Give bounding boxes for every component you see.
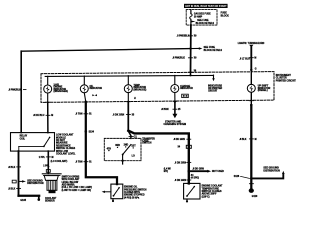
label .8 BLK lower xyxy=(8,188,21,190)
svg-text:(126°C): (126°C) xyxy=(202,196,210,198)
arrow left from oil switch xyxy=(102,191,111,193)
lamp L4 lower stub xyxy=(173,93,177,102)
module internal text xyxy=(20,135,28,141)
oil pressure switch label xyxy=(124,187,147,200)
label (L4 W/MT) xyxy=(164,167,171,173)
fuse block label xyxy=(221,13,230,18)
label W5 xyxy=(239,139,256,141)
label W2 .8 TAN lower xyxy=(75,161,92,164)
svg-text:(4 SPD): (4 SPD) xyxy=(191,176,199,179)
lamp L2 lower stub xyxy=(84,93,88,102)
svg-text:SEE FUSE: SEE FUSE xyxy=(204,47,216,49)
svg-text:LIGHTS: TURN/HAZARD: LIGHTS: TURN/HAZARD xyxy=(238,42,265,45)
splice label left xyxy=(234,176,250,178)
svg-text:CHARGING SYSTEM: CHARGING SYSTEM xyxy=(164,123,187,126)
lamp L4 stub xyxy=(174,75,176,84)
coolant sensor body xyxy=(42,174,61,193)
label W4 xyxy=(161,109,181,111)
svg-text:INSTRUMENT: INSTRUMENT xyxy=(276,75,292,77)
node S (junction to left feed) xyxy=(189,47,191,49)
wire left feed to left column xyxy=(21,49,190,52)
svg-text:LEVEL BELOW: LEVEL BELOW xyxy=(62,182,79,184)
svg-text:RESISTANCE: RESISTANCE xyxy=(56,144,71,147)
svg-text:(FULL TO LOW = NO LAMP): (FULL TO LOW = NO LAMP) xyxy=(62,186,93,189)
svg-text:COOLANT: COOLANT xyxy=(45,197,57,200)
switch inside transfer case xyxy=(107,145,137,164)
svg-text:.8 DK GRN: .8 DK GRN xyxy=(192,168,204,170)
svg-text:10 AMP: 10 AMP xyxy=(194,16,203,19)
svg-text:ON PRINTED: ON PRINTED xyxy=(208,88,223,90)
svg-text:1 PPL: 1 PPL xyxy=(43,165,50,167)
svg-text:ABOVE 258°F: ABOVE 258°F xyxy=(202,193,218,196)
svg-text:.8 BRN: .8 BRN xyxy=(161,109,169,111)
lamp L4 charge indicator xyxy=(171,85,179,93)
svg-text:BLOCK DETAILS: BLOCK DETAILS xyxy=(204,49,223,52)
svg-text:PRINTED CIRCUIT: PRINTED CIRCUIT xyxy=(276,80,297,82)
bus wire inside cluster xyxy=(45,75,213,76)
svg-text:M: M xyxy=(52,157,54,159)
label .8 PNK/BLK left wire xyxy=(8,90,26,92)
lamp L1 stub xyxy=(47,76,49,85)
ground G110 xyxy=(249,188,258,198)
svg-text:WITH LOW: WITH LOW xyxy=(56,151,69,153)
svg-text:3RD: 3RD xyxy=(115,145,120,147)
svg-text:HOT IN RUN, BULB TEST OR START: HOT IN RUN, BULB TEST OR START xyxy=(185,5,227,8)
wire fuse to cluster (PNK/BLK) xyxy=(190,25,192,72)
svg-text:.8 DK GRN: .8 DK GRN xyxy=(174,162,186,164)
oil pressure switch box xyxy=(111,184,123,202)
svg-text:.8 DK BLU: .8 DK BLU xyxy=(33,115,45,117)
wire W2 lamp2 down (TAN) xyxy=(86,102,117,184)
lamp L3 lower stub xyxy=(126,93,136,102)
label W3 xyxy=(113,114,135,116)
svg-text:BLOCK: BLOCK xyxy=(221,15,230,17)
lamp L3 stub xyxy=(127,76,129,85)
svg-text:TEMPERATURE: TEMPERATURE xyxy=(202,187,220,190)
sensor note text xyxy=(62,176,93,192)
svg-text:S128: S128 xyxy=(234,176,240,178)
svg-text:31: 31 xyxy=(89,114,92,116)
svg-text:LOW COOLANT: LOW COOLANT xyxy=(56,134,74,137)
node bus/fuse wire junction xyxy=(189,74,191,76)
svg-text:SEE FUSE: SEE FUSE xyxy=(197,20,209,22)
lamp L5 lower stub xyxy=(249,92,253,105)
svg-text:(W/GAUGES): (W/GAUGES) xyxy=(54,90,69,93)
bus end down arrow xyxy=(212,75,215,81)
label .8 PNK/BLK below junction xyxy=(172,58,197,60)
svg-text:.8 PNK/BLK: .8 PNK/BLK xyxy=(177,36,190,38)
svg-text:.8 TAN: .8 TAN xyxy=(75,113,82,116)
note starter and charging system xyxy=(164,121,187,127)
svg-text:4TH: 4TH xyxy=(107,148,112,151)
svg-text:.8 BLK: .8 BLK xyxy=(8,188,16,190)
node branch not used xyxy=(188,168,225,173)
svg-text:G105: G105 xyxy=(20,200,26,202)
svg-text:39: 39 xyxy=(194,58,197,60)
label 34 4-spd xyxy=(191,174,199,179)
svg-text:FUSE: FUSE xyxy=(221,13,228,15)
svg-text:1 PPL: 1 PPL xyxy=(39,157,46,159)
wire fuse entry to bus xyxy=(190,72,192,75)
lamp L1 lower stub xyxy=(46,93,50,102)
svg-text:S134: S134 xyxy=(89,131,95,134)
svg-text:39: 39 xyxy=(194,36,197,38)
instrument cluster dashed box xyxy=(41,72,274,103)
note indicators printed circuit xyxy=(208,84,223,92)
svg-text:SWITCH: SWITCH xyxy=(142,143,151,145)
wire G into cluster xyxy=(250,70,252,84)
svg-text:M: M xyxy=(51,115,53,117)
arrow see fuse block details xyxy=(191,47,223,52)
bowtie mark under L2 label xyxy=(92,94,97,96)
svg-text:DISTRIBUTION: DISTRIBUTION xyxy=(263,170,280,172)
svg-text:SWITCH CLOSES: SWITCH CLOSES xyxy=(56,148,76,150)
svg-text:NOT USED: NOT USED xyxy=(212,171,224,173)
inline connector 34 xyxy=(178,145,192,148)
wire W4 lamp4 to starter/charging xyxy=(172,100,177,118)
svg-text:INDICATOR: INDICATOR xyxy=(90,87,103,90)
splice S208 and see ground distribution xyxy=(12,180,44,185)
ground wire from module xyxy=(18,151,20,196)
labels on sensor wire xyxy=(39,157,68,173)
svg-text:CLUSTER: CLUSTER xyxy=(276,78,287,80)
svg-text:CIRCUIT: CIRCUIT xyxy=(208,91,218,93)
lamp L5 up shift indicator xyxy=(247,84,255,92)
svg-text:M: M xyxy=(255,139,257,141)
svg-text:(L4 W/: (L4 W/ xyxy=(164,167,171,170)
svg-text:ADD MARK:: ADD MARK: xyxy=(62,184,76,187)
svg-text:MT): MT) xyxy=(164,171,168,173)
temperature switch box xyxy=(184,183,200,202)
svg-text:.8 DK GRN: .8 DK GRN xyxy=(113,114,125,116)
svg-text:.8 BLK: .8 BLK xyxy=(8,167,16,169)
left column wire down xyxy=(20,51,22,132)
svg-text:INDICATORS: INDICATORS xyxy=(208,84,223,87)
svg-text:PRESSURE SWITCH: PRESSURE SWITCH xyxy=(124,189,147,191)
label .8 LT GRN connector xyxy=(239,58,256,61)
svg-text:MEASURE: MEASURE xyxy=(56,142,68,145)
wire W3 lamp3 down (DK GRN) xyxy=(127,102,129,131)
temperature switch label xyxy=(202,185,223,199)
label W2 .8 TAN upper xyxy=(75,113,92,116)
svg-text:BLOCK DETAILS: BLOCK DETAILS xyxy=(196,22,215,25)
wire W5 lamp5 down (BLK) xyxy=(250,104,252,188)
svg-text:.8 DK GRN: .8 DK GRN xyxy=(173,139,185,141)
svg-text:ENGINE COOLANT: ENGINE COOLANT xyxy=(202,185,223,188)
svg-text:.8 LT BLU: .8 LT BLU xyxy=(239,58,250,60)
sensor wire from module xyxy=(47,151,49,174)
coolant sensor label xyxy=(45,197,57,203)
svg-text:SEE GROUND: SEE GROUND xyxy=(27,180,43,182)
svg-text:35: 35 xyxy=(132,114,135,116)
svg-text:.8 BLK: .8 BLK xyxy=(239,139,247,141)
low coolant module label xyxy=(56,134,76,156)
transfer case dashed box xyxy=(104,138,141,160)
svg-text:G110: G110 xyxy=(252,196,258,198)
fuse text labels xyxy=(194,13,215,25)
svg-text:.8 TAN: .8 TAN xyxy=(75,161,82,164)
svg-text:(W/GAUGE): (W/GAUGE) xyxy=(134,88,147,91)
labels on DK GRN vertical xyxy=(173,139,191,141)
svg-text:SENSOR: SENSOR xyxy=(45,201,55,203)
ground G105 run xyxy=(19,196,41,202)
label .8 BLK upper xyxy=(8,167,21,169)
svg-text:DISTRIBUTION: DISTRIBUTION xyxy=(27,183,44,185)
lamp L1 low engine indicator xyxy=(44,85,52,93)
tick on W5 lower xyxy=(249,183,253,185)
svg-text:1ST: 1ST xyxy=(131,146,136,148)
svg-text:31: 31 xyxy=(89,162,92,164)
wire W3 thick run right xyxy=(128,131,189,184)
svg-text:2ND: 2ND xyxy=(124,145,129,147)
svg-text:(LO COOLANT): (LO COOLANT) xyxy=(51,160,68,163)
instrument cluster label xyxy=(276,75,297,82)
branch see ground distribution right xyxy=(250,168,285,180)
node S134 xyxy=(85,130,95,133)
svg-text:SEE GROUND: SEE GROUND xyxy=(263,168,279,170)
svg-text:(LOW TO ADD = LAMP ON): (LOW TO ADD = LAMP ON) xyxy=(62,189,92,192)
label .8 DK GRN mid xyxy=(174,162,190,164)
node G xyxy=(250,69,257,72)
transfer case label xyxy=(142,137,155,144)
svg-text:.8 PNK/BLK: .8 PNK/BLK xyxy=(8,90,21,92)
svg-text:MODULE: MODULE xyxy=(56,137,66,139)
fuse F1 GAUGES 10 AMP xyxy=(190,10,196,26)
svg-text:DO NOT: DO NOT xyxy=(56,140,66,142)
svg-text:LO: LO xyxy=(132,155,135,157)
title bar HOT IN RUN xyxy=(184,4,228,8)
svg-text:(4 PSI) 28 kPa: (4 PSI) 28 kPa xyxy=(124,196,140,199)
svg-text:34: 34 xyxy=(178,146,181,149)
label .8 PNK/BLK with connector 39 xyxy=(177,36,197,38)
svg-text:GAUGES FUSE: GAUGES FUSE xyxy=(194,13,211,16)
svg-text:INDICATOR: INDICATOR xyxy=(180,87,193,90)
wire branch into transfer case switch xyxy=(128,131,137,139)
svg-text:(DIESEL): (DIESEL) xyxy=(258,90,268,92)
svg-text:M: M xyxy=(254,58,256,60)
svg-text:COIL: COIL xyxy=(20,138,26,140)
svg-text:SWITCH OPENS: SWITCH OPENS xyxy=(62,176,80,178)
svg-text:ENGINE STOPPED: ENGINE STOPPED xyxy=(124,195,145,197)
wire turn/hazard to cluster xyxy=(250,47,252,70)
svg-text:CLOSES WITH: CLOSES WITH xyxy=(124,192,140,194)
fuse block dashed box xyxy=(186,10,217,26)
svg-text:RELAY: RELAY xyxy=(20,135,28,138)
wire W1 lamp1 to module xyxy=(47,102,49,132)
svg-text:COOLANT LEVEL: COOLANT LEVEL xyxy=(56,153,76,156)
svg-text:WITH COOLANT: WITH COOLANT xyxy=(62,178,80,181)
svg-text:25: 25 xyxy=(178,109,181,111)
svg-text:.8 DK GRN: .8 DK GRN xyxy=(174,180,186,182)
lamp L2 stub xyxy=(83,76,85,85)
tick 38 fuse wire entering cluster xyxy=(189,71,197,73)
lamp L2 oil indicator xyxy=(80,85,88,93)
svg-text:SWITCH: CLOSES: SWITCH: CLOSES xyxy=(202,191,222,193)
lamp L3 temp indicator xyxy=(124,85,132,93)
low coolant module box xyxy=(11,133,55,152)
lights turn/hazard source xyxy=(238,42,265,47)
label W1 xyxy=(33,115,53,117)
svg-text:ENGINE OIL: ENGINE OIL xyxy=(124,187,138,189)
svg-text:.8 PNK/BLK: .8 PNK/BLK xyxy=(172,58,185,60)
svg-text:H: H xyxy=(134,98,136,100)
svg-text:G: G xyxy=(255,69,257,71)
label .8 DK GRN lower xyxy=(174,180,190,182)
connector symbol under charge label xyxy=(182,94,189,97)
